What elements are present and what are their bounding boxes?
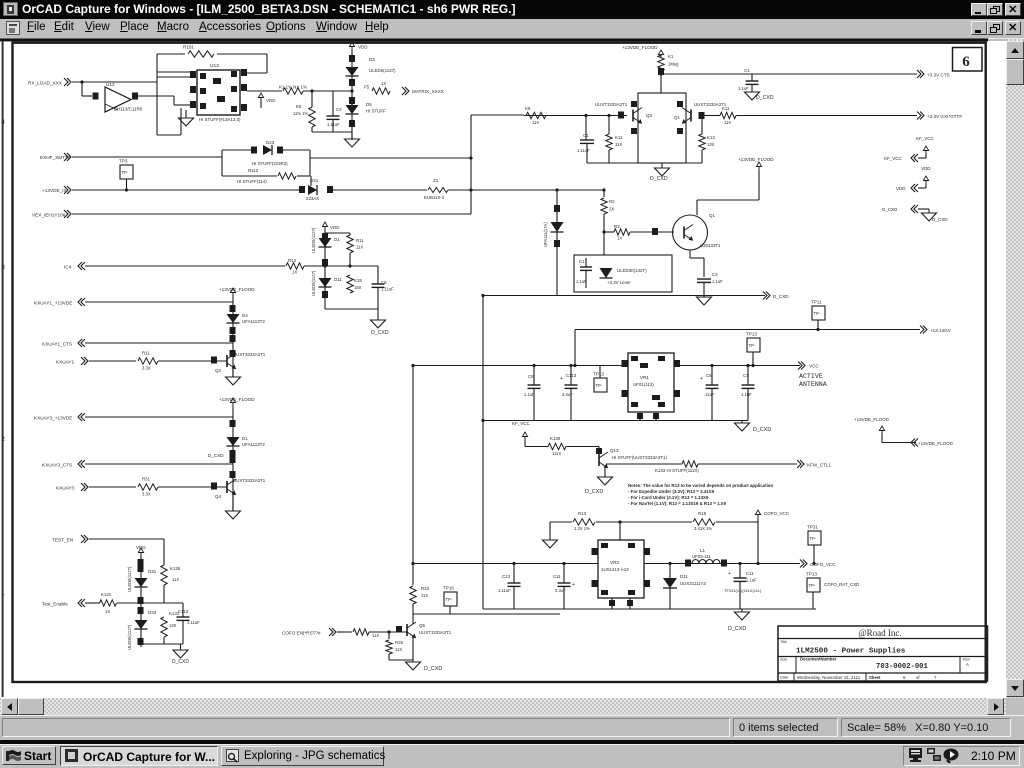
test point TP3 [120, 165, 133, 179]
resistor R1 [658, 55, 664, 71]
VR1 bottom stubs [639, 412, 641, 421]
menubar close button [1005, 21, 1021, 35]
svg-text:R101: R101 [183, 45, 194, 50]
svg-text:C113: C113 [178, 609, 189, 614]
pad above ground on matrix column [349, 120, 355, 127]
wire +13.14GV [575, 329, 920, 331]
capacitor C1 lever [585, 258, 587, 267]
bottom rail Q3 cluster [587, 162, 702, 164]
wire K133 to port [698, 463, 797, 465]
power COFO_VCC arrow [757, 514, 759, 518]
wire fb row to VR3 top [619, 522, 621, 540]
svg-text:+13VDE_FLOOD: +13VDE_FLOOD [219, 397, 255, 402]
svg-text:K135: K135 [170, 566, 181, 571]
MDI child document icon [6, 21, 20, 35]
svg-text:TP-: TP- [446, 597, 453, 602]
svg-text:EH113/C11R0: EH113/C11R0 [114, 107, 143, 112]
svg-text:2: 2 [1, 436, 5, 443]
svg-text:U30133T1: U30133T1 [700, 243, 721, 248]
svg-text:R11: R11 [356, 238, 364, 243]
svg-text:ULED30(132T): ULED30(132T) [617, 268, 647, 273]
wire COFO_VCC arrow down [757, 518, 759, 564]
svg-text:D_CXD: D_CXD [728, 626, 746, 632]
transistor Q4 [226, 481, 228, 493]
svg-text:D31: D31 [148, 569, 157, 574]
wire K5 top to K1 wire [311, 91, 313, 107]
svg-text:11X: 11X [172, 577, 179, 582]
pad diode x557 bottom [554, 240, 560, 247]
rail D_CXD y295 [483, 295, 765, 297]
svg-text:D_CXD: D_CXD [371, 330, 389, 336]
wire R3 to Q1 base [630, 231, 674, 233]
ground antenna rail [741, 421, 743, 424]
system tray [903, 746, 1020, 766]
wire FLOOD to Q1 collector [758, 170, 760, 200]
svg-text:UF03-111: UF03-111 [692, 554, 711, 559]
L1 pads [685, 560, 691, 567]
svg-text:R112: R112 [248, 168, 259, 173]
svg-text:UUXT3333A3T1: UUXT3333A3T1 [233, 478, 266, 483]
svg-text:ULED6(1137): ULED6(1137) [369, 68, 396, 73]
svg-text:HI STUFF(UUXT3333A3T1): HI STUFF(UUXT3333A3T1) [612, 455, 667, 460]
wire K6 from x471 [524, 115, 627, 117]
diode D23 [263, 145, 272, 155]
svg-text:TEST_EN: TEST_EN [52, 538, 73, 543]
port D_CXD mid [763, 292, 767, 300]
svg-text:VDD: VDD [136, 545, 146, 550]
svg-text:D_CXD: D_CXD [882, 207, 898, 212]
window client left border [2, 41, 4, 697]
VR1 side pads [622, 360, 628, 367]
wire COFO EN to R34 [337, 631, 352, 633]
wire U13 input third [157, 134, 181, 136]
title bar [0, 0, 1024, 19]
svg-text:ULED9(1127): ULED9(1127) [311, 270, 316, 296]
svg-text:TP3: TP3 [119, 159, 128, 164]
ground R13 left [549, 522, 551, 540]
wire R101 loop top [157, 53, 185, 55]
pad2 KXUAY3_+13VDE [230, 450, 236, 457]
wire test bottom rail [141, 643, 183, 645]
regulator VR1 body [628, 353, 674, 412]
pad K13 top [699, 112, 705, 119]
U13 right pin pads [241, 69, 247, 76]
svg-text:1X: 1X [105, 609, 110, 614]
svg-text:1.11uF: 1.11uF [381, 287, 394, 292]
wire Q5 collector [412, 622, 414, 624]
svg-text:KF_VCC: KF_VCC [512, 421, 531, 426]
wire KXUAY3_+13VDE column [232, 407, 234, 511]
wire x575 down to VCC wire [574, 330, 576, 366]
wire R34 to Q5 base [369, 631, 407, 633]
svg-text:+13VDE_IX: +13VDE_IX [42, 188, 67, 193]
capacitor C1 antenna [747, 366, 749, 386]
diode D21 [308, 185, 317, 195]
wire VEX to column [72, 213, 471, 215]
resistor R35 pulldown [388, 632, 390, 639]
svg-text:R2: R2 [609, 199, 615, 204]
svg-text:VDD: VDD [266, 98, 276, 103]
svg-text:VDD: VDD [896, 186, 906, 191]
pad4 KXUAY1_CTS [230, 350, 236, 357]
power VDD test cluster [140, 552, 142, 556]
wire loop to x471 column [310, 157, 471, 159]
svg-text:R15: R15 [698, 511, 707, 516]
wire R13 to diode column [304, 265, 352, 267]
svg-text:6: 6 [962, 54, 970, 70]
VR3 bottom stubs [611, 598, 613, 609]
svg-text:F5: F5 [364, 85, 370, 90]
wire CTS KXUAY1_CTS [85, 342, 233, 344]
titlebar close button [1005, 3, 1021, 17]
svg-text:D4: D4 [242, 313, 248, 318]
svg-text:+: + [728, 571, 731, 577]
junction rail x483 [481, 294, 484, 297]
svg-text:UUXT3333A3T1: UUXT3333A3T1 [595, 102, 628, 107]
svg-text:D_CXD: D_CXD [932, 217, 948, 222]
svg-text:TP-: TP- [809, 583, 816, 588]
svg-text:+13.14GV: +13.14GV [930, 328, 952, 333]
svg-text:KXUAY3_CTS: KXUAY3_CTS [42, 463, 72, 468]
ground cofo rail [741, 609, 743, 612]
svg-text:HI STUFF(223R2): HI STUFF(223R2) [252, 161, 288, 166]
svg-text:Date:: Date: [780, 676, 789, 680]
svg-text:Sheet: Sheet [869, 675, 881, 680]
port +3.3V CTS [917, 70, 921, 78]
ground right pin table [922, 213, 937, 221]
svg-text:R13: R13 [288, 258, 297, 263]
ground test cluster [173, 650, 188, 658]
loop box left vertical [221, 150, 223, 176]
hscroll left button [1, 698, 18, 715]
svg-text:13X: 13X [707, 142, 715, 147]
VR3 side pads [592, 548, 598, 555]
transistor Q3 [632, 110, 634, 122]
wire R2 to base node [603, 214, 605, 232]
svg-text:UUX31111Y3: UUX31111Y3 [680, 581, 706, 586]
svg-text:C1: C1 [744, 68, 750, 73]
svg-text:11X: 11X [724, 120, 731, 125]
junction K1/F5 node [350, 89, 353, 92]
junction x471 EXHF [469, 156, 472, 159]
svg-text:15X: 15X [354, 285, 362, 290]
diode D1 [227, 437, 240, 446]
wire R130 to Q13 [566, 446, 599, 448]
wire base KXUAY3 [89, 486, 136, 488]
pad KXUAY1_+13VDE [230, 305, 236, 312]
rail y614 [413, 613, 560, 615]
diode column x557 [556, 190, 558, 295]
wire R35 rail [389, 659, 413, 661]
wire TP31 stub [813, 545, 815, 564]
ground Q4 [232, 495, 234, 511]
test point TP31 [808, 531, 821, 545]
junction x471 on +13VDE wire [469, 188, 472, 191]
wire CTS KXUAY3_CTS [85, 463, 233, 465]
svg-text:TP31: TP31 [807, 525, 818, 530]
svg-text:D_CXD: D_CXD [650, 176, 668, 182]
ground Q3 cluster [661, 163, 663, 168]
wire stub U13 lower-left pin to ground [185, 110, 187, 118]
wire x471 top to K6 [471, 114, 524, 116]
title block outer box [778, 626, 988, 681]
svg-text:+3.3V Lever: +3.3V Lever [607, 280, 631, 285]
U12 output pad [132, 93, 138, 100]
diode D21 pads [299, 186, 305, 193]
svg-text:- For Expedite Under (3.3V): R: - For Expedite Under (3.3V): R13 = 3.41X… [628, 489, 715, 494]
resistor K130 [548, 443, 566, 449]
svg-text:@Road Inc.: @Road Inc. [858, 628, 901, 638]
svg-text:K1: K1 [668, 54, 674, 59]
wire +3.3V CTS [661, 73, 917, 75]
junction diode column mid [323, 264, 326, 267]
regulator VR3 body [598, 540, 644, 598]
svg-text:COFO EN(*RST?#: COFO EN(*RST?# [282, 631, 321, 636]
resistor R33 vertical [410, 586, 416, 604]
ground Q5 [412, 660, 414, 662]
svg-text:D5: D5 [366, 102, 372, 107]
resistor R13 fb [573, 519, 595, 525]
wire port KXUAY3_+13VDE [85, 416, 233, 418]
svg-text:11X: 11X [532, 120, 539, 125]
title block line under title [778, 656, 988, 658]
wire R101 to U13 right column [217, 53, 267, 55]
Q3/Q1 inner pads [631, 101, 637, 107]
svg-text:Q4: Q4 [215, 494, 222, 499]
svg-text:ULED9(1127): ULED9(1127) [311, 227, 316, 253]
wire Q1 emitter down [689, 250, 691, 258]
wire mid rail to C5 [350, 265, 378, 267]
menubar minimize button [971, 21, 987, 35]
svg-text:MATRIX_XXXX: MATRIX_XXXX [412, 89, 444, 94]
wire loop right down to D21 [310, 176, 312, 186]
port VDD [925, 184, 927, 188]
svg-text:KXUAY1_CTS: KXUAY1_CTS [42, 342, 72, 347]
port MATRIX_XXXX [402, 87, 406, 95]
rail cofo bottom [483, 608, 816, 610]
svg-text:D_CXD: D_CXD [773, 294, 789, 299]
svg-text:1.3X 1%: 1.3X 1% [574, 526, 590, 531]
titlebar minimize button [971, 3, 987, 17]
svg-text:K130: K130 [550, 436, 561, 441]
svg-text:D_CXD: D_CXD [172, 659, 189, 665]
task button OrCAD (active) [60, 746, 218, 766]
ground below U13 [179, 118, 194, 126]
wire COFO main left [413, 563, 598, 565]
svg-text:TP-: TP- [749, 343, 756, 348]
junction x575 VCC [573, 364, 576, 367]
svg-text:A: A [966, 662, 969, 667]
diode D1 [319, 238, 332, 247]
svg-text:223AX: 223AX [306, 196, 319, 201]
resistor K6 [526, 112, 546, 118]
svg-text:U13: U13 [210, 63, 219, 69]
junction C1b [584, 114, 587, 117]
svg-text:1.1uF: 1.1uF [576, 279, 587, 284]
title block line above date row [778, 672, 988, 674]
pad bottom diode column [322, 291, 328, 298]
svg-text:TP13: TP13 [806, 572, 817, 577]
svg-text:R33: R33 [421, 586, 430, 591]
wire to ground D_CXD [377, 309, 379, 320]
wire Q13 emitter to ground [604, 466, 606, 477]
pad KXUAY3_+13VDE [230, 420, 236, 427]
resistor K5 [309, 107, 315, 127]
svg-text:D_CXD: D_CXD [585, 489, 603, 495]
resistor R13 [286, 263, 304, 269]
capacitor C113 antenna [570, 366, 572, 386]
wire Q13 collector to K133 [606, 463, 682, 465]
ground Q13 [598, 477, 613, 485]
wire R33 to rail y614 [412, 604, 414, 622]
svg-text:+3.3V GXI*GTT#: +3.3V GXI*GTT# [927, 114, 962, 119]
wire +13VDE_IX main [72, 189, 299, 191]
diode D3 [346, 67, 359, 76]
pad test vdd [138, 559, 144, 566]
wire x483 vertical long [482, 296, 484, 610]
capacitor C3 emitter [697, 278, 711, 280]
port COFO_VCC [800, 560, 804, 568]
test point TP13 upper [747, 338, 760, 352]
wire U13 input second [157, 76, 190, 78]
title block line under company [778, 638, 988, 640]
svg-text:TP13: TP13 [746, 332, 757, 337]
wire matrix column vertical [351, 50, 353, 140]
box around C1/D1 lever [574, 255, 672, 292]
hscroll right button [987, 698, 1004, 715]
svg-text:C5: C5 [381, 280, 387, 285]
port KF_VCC [925, 154, 927, 158]
resistor R2 [603, 190, 605, 197]
svg-text:TF331(11)(111X(111): TF331(11)(111X(111) [724, 588, 762, 593]
svg-text:TP11: TP11 [811, 300, 822, 305]
pad base KXUAY3 [211, 483, 217, 490]
rail caps bottom [483, 420, 748, 422]
test point TP13 on VR1 left [594, 378, 607, 392]
svg-text:R3: R3 [614, 224, 620, 229]
svg-text:Z1: Z1 [433, 178, 439, 183]
svg-text:KF_VCC: KF_VCC [884, 156, 903, 161]
svg-text:Q5: Q5 [419, 623, 426, 628]
capacitor C5 antenna [711, 366, 713, 386]
vscroll down button [1006, 679, 1024, 697]
svg-text:D11: D11 [334, 277, 342, 282]
svg-text:C1: C1 [579, 259, 585, 264]
tray clock [971, 749, 1016, 763]
menu bar [0, 19, 1024, 39]
resistor K13 below Q1 [701, 118, 703, 134]
svg-text:1.11uF: 1.11uF [187, 620, 200, 625]
svg-text:+13VDE_FLOOD: +13VDE_FLOOD [738, 157, 774, 162]
svg-text:+13VDE_FLOOD: +13VDE_FLOOD [918, 441, 954, 446]
svg-text:+: + [560, 376, 563, 382]
vscroll thumb [1006, 59, 1024, 85]
svg-text:C13: C13 [502, 574, 511, 579]
svg-text:RX_LOAD_XXX: RX_LOAD_XXX [28, 81, 63, 86]
svg-text:11X: 11X [421, 593, 428, 598]
svg-text:- For i-Card Under (3.1V):: - For i-Card Under (3.1V): R13 = 1.13X9 [628, 495, 709, 500]
resistor R11 [138, 358, 158, 364]
diode D4 [227, 314, 240, 323]
wire VCC main [413, 365, 628, 367]
port KFW_CTL1 [797, 460, 801, 468]
svg-text:UFA111(17A): UFA111(17A) [543, 222, 548, 247]
wire COFO main right [644, 563, 800, 565]
svg-text:HI STUFF: HI STUFF [366, 109, 386, 114]
svg-text:C3: C3 [712, 272, 718, 277]
svg-text:R35: R35 [395, 640, 404, 645]
wire column x157 vertical [156, 54, 158, 135]
pad3 KXUAY3_CTS [230, 456, 236, 463]
wire U13 input upper [157, 71, 190, 73]
svg-text:R11: R11 [142, 351, 150, 356]
svg-text:C3: C3 [336, 107, 342, 112]
svg-text:1Meg: 1Meg [668, 62, 679, 67]
svg-text:1US1413-A13: 1US1413-A13 [601, 567, 629, 572]
capacitor C11b cofo [739, 564, 741, 579]
svg-text:13X: 13X [169, 623, 177, 628]
svg-text:KXUAY3_+13VDE: KXUAY3_+13VDE [34, 416, 72, 421]
svg-text:KXUAY1: KXUAY1 [56, 360, 75, 365]
resistor R101 [188, 51, 214, 57]
svg-text:1: 1 [1, 590, 5, 597]
pads test junction [138, 597, 144, 604]
svg-text:UFA1113T2: UFA1113T2 [242, 442, 265, 447]
diode D6 on x557 [551, 222, 564, 232]
svg-text:UUXT3333A3T1: UUXT3333A3T1 [419, 630, 452, 635]
svg-text:VDD: VDD [358, 45, 368, 50]
test point TP11 [812, 306, 825, 320]
svg-text:K133 HI STUFF(111X): K133 HI STUFF(111X) [655, 468, 699, 473]
pad base KXUAY1 [211, 357, 217, 364]
svg-text:VDD: VDD [330, 225, 340, 230]
ground on rail [703, 296, 705, 298]
diode D33 [135, 620, 148, 629]
svg-text:TP-: TP- [814, 311, 821, 316]
box Q3/Q1 outline [638, 93, 686, 163]
svg-text:1.1uF: 1.1uF [524, 392, 535, 397]
titlebar restore button [987, 3, 1003, 17]
title block vertical dividers [795, 657, 797, 674]
svg-text:Title: Title [780, 640, 787, 644]
svg-text:1.1uF: 1.1uF [746, 578, 757, 583]
junction rail x483 y420 [481, 419, 484, 422]
svg-text:TP-: TP- [122, 170, 129, 175]
svg-text:111X: 111X [552, 451, 561, 456]
svg-text:1X: 1X [381, 81, 386, 86]
svg-text:D_CXD: D_CXD [208, 453, 224, 458]
diode D23 pads [251, 147, 257, 154]
capacitor C6 antenna [533, 366, 535, 386]
svg-text:K1 1% NX 1%: K1 1% NX 1% [279, 85, 307, 90]
svg-text:3.3X: 3.3X [142, 492, 151, 497]
op-amp U12 buffer triangle [105, 87, 131, 112]
svg-text:K11: K11 [722, 106, 730, 111]
wire FLOOD right [881, 434, 883, 443]
wire R11 bottom to mid rail [349, 253, 351, 266]
wire bottom rail diode cluster [325, 308, 378, 310]
pad Q13 base [596, 448, 602, 454]
svg-text:ANTENNA: ANTENNA [799, 381, 827, 388]
svg-text:C1: C1 [583, 133, 589, 138]
pad test bottom [138, 638, 144, 645]
page number box [953, 48, 983, 72]
svg-text:TP-: TP- [810, 536, 817, 541]
svg-text:TP-: TP- [596, 383, 603, 388]
resistor R11 vertical [347, 235, 353, 253]
svg-text:Size: Size [780, 658, 787, 662]
svg-text:K6: K6 [525, 106, 531, 111]
